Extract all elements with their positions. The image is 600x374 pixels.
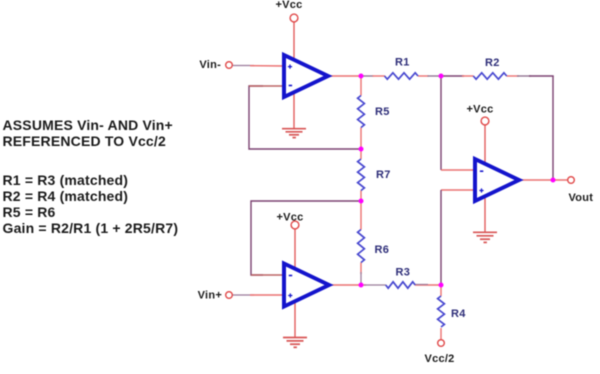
wire node D to R6 [360, 201, 362, 230]
label +Vcc U3 [467, 104, 494, 116]
label R4 [451, 308, 466, 320]
svg-text:R4: R4 [451, 308, 466, 320]
wire R1 to node B [418, 75, 439, 77]
svg-text:R6: R6 [375, 244, 390, 256]
label +Vcc U1 [276, 0, 303, 11]
svg-text:Vcc/2: Vcc/2 [425, 353, 455, 365]
wire Vin- net segment [233, 65, 254, 67]
label +Vcc U2 [277, 212, 304, 224]
resistor R2 [473, 73, 506, 79]
resistor R5 [358, 96, 365, 128]
node D junction [359, 199, 364, 204]
ground U2 [283, 338, 307, 348]
terminal Vcc/2 [438, 340, 445, 347]
wire U3 non-inverting input stub [441, 189, 475, 191]
wire U2 feedback from inverting input [251, 201, 361, 275]
svg-text:Vout: Vout [569, 192, 594, 204]
wire U1 output to node A [328, 75, 361, 77]
resistor R4 [438, 296, 445, 327]
svg-text:Vin+: Vin+ [198, 290, 222, 302]
terminal Vin+ [226, 292, 233, 299]
label Vout [569, 192, 594, 204]
wire R6 to node E [360, 263, 362, 286]
label R7 [376, 169, 391, 181]
label R6 [375, 244, 390, 256]
node B junction [439, 74, 444, 79]
wire U1 inverting input stub [249, 85, 284, 87]
label R1 [395, 57, 410, 69]
terminal +Vcc U3 [481, 117, 489, 125]
note text block resistor relations [3, 172, 179, 237]
op-amp U3 [475, 159, 519, 201]
wire R7 to node D [360, 191, 362, 202]
label Vin- [199, 59, 221, 71]
ground U1 [282, 129, 306, 138]
wire node A to R1 [363, 75, 385, 77]
wire U3 non-inverting input down to R3 node [440, 190, 442, 285]
svg-text:R7: R7 [376, 169, 391, 181]
wire Vin+ net segment [233, 294, 254, 296]
node Vout junction [551, 178, 556, 183]
label Vcc/2 [425, 353, 455, 365]
wire R4 to Vcc/2 terminal [440, 328, 442, 339]
wire right corner down to output node [552, 76, 554, 180]
label Vin+ [198, 290, 222, 302]
terminal Vin- [226, 62, 233, 69]
svg-text:+Vcc: +Vcc [277, 212, 304, 224]
ground U3 [473, 232, 497, 242]
terminal Vout [568, 177, 575, 184]
wire R3 to node F [415, 283, 441, 286]
svg-text:+Vcc: +Vcc [276, 0, 303, 11]
note text block assumptions [3, 117, 173, 149]
node C junction [359, 147, 364, 152]
wire node A to R5 [360, 76, 362, 96]
wire node C to R7 [360, 149, 362, 159]
label R2 [485, 57, 500, 69]
wire U2 inverting input stub [251, 274, 284, 276]
svg-text:R2: R2 [485, 57, 500, 69]
wire Vin+ to U2 [250, 294, 284, 296]
node E junction [359, 283, 364, 288]
op-amp U2 [284, 264, 329, 307]
label R3 [396, 267, 411, 279]
label R5 [375, 106, 390, 118]
wire U1 feedback from inverting input [249, 86, 361, 149]
resistor R6 [358, 230, 365, 263]
resistor R1 [385, 73, 419, 79]
terminal +Vcc U1 [290, 14, 298, 22]
wire node F to R4 [440, 285, 442, 296]
wire U3 inverting input stub [441, 169, 475, 171]
svg-text:+Vcc: +Vcc [467, 104, 494, 116]
svg-text:Vin-: Vin- [199, 59, 221, 71]
node F junction [439, 283, 444, 288]
wire node B to R2 [441, 75, 474, 77]
wire +Vcc supply to U3 [484, 125, 486, 232]
wire node B down to U3 inverting input [440, 76, 442, 170]
resistor R7 [358, 159, 365, 191]
wire U2 output to node E [329, 284, 361, 286]
wire R5 to node C [360, 128, 362, 150]
svg-text:R1: R1 [395, 57, 410, 69]
wire R2 to right corner [507, 75, 554, 77]
wire +Vcc supply to U2 [294, 229, 296, 337]
svg-text:R3: R3 [396, 267, 411, 279]
wire Vin- to U1 [250, 65, 284, 67]
resistor R3 [386, 282, 416, 288]
wire +Vcc supply to U1 [293, 22, 295, 128]
node A junction [359, 74, 364, 79]
wire node E to R3 [361, 284, 386, 286]
wire U3 output to Vout [519, 179, 567, 181]
svg-text:R5: R5 [375, 106, 390, 118]
terminal +Vcc U2 [291, 221, 299, 229]
op-amp U1 [284, 55, 328, 97]
